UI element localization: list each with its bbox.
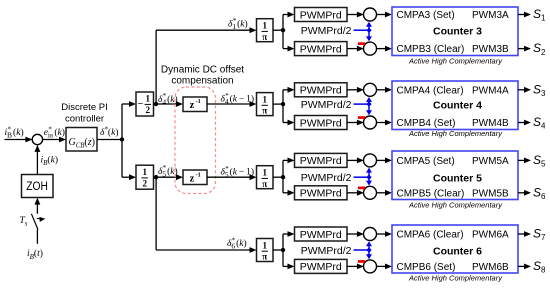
wire summer to counter box top row counter 5 xyxy=(377,159,387,161)
wire PWMPrd to summer bottom row counter 4 xyxy=(347,122,358,124)
wire summer to counter box top row counter 4 xyxy=(377,89,387,91)
block ZOH xyxy=(22,175,54,198)
sampler switch xyxy=(31,214,38,230)
node δ5*(k) xyxy=(154,176,178,178)
summer circle top row counter 3 xyxy=(364,8,377,21)
block PWMPrd top row counter 3 xyxy=(295,8,348,22)
counter box Counter 6 xyxy=(392,225,518,273)
output arrow S2 xyxy=(518,48,526,50)
svg-text:-1: -1 xyxy=(196,172,201,179)
wire branch to top PWMPrd row counter 5 xyxy=(282,160,284,192)
svg-text:−: − xyxy=(138,99,144,110)
svg-text:π: π xyxy=(262,32,267,42)
wire summer to counter box bottom row counter 3 xyxy=(377,48,387,50)
summer circle top row counter 4 xyxy=(364,83,377,96)
block PWMPrd top row counter 4 xyxy=(295,83,348,97)
svg-text:compensation: compensation xyxy=(171,76,233,87)
svg-text:iB(t): iB(t) xyxy=(27,248,43,261)
block GCB(z) PI controller xyxy=(66,128,97,152)
blue wire PWMPrd/2 row counter 4 xyxy=(354,103,370,105)
wire summer to counter box bottom row counter 5 xyxy=(377,192,387,194)
svg-text:Counter 3: Counter 3 xyxy=(433,26,482,38)
minus sign row counter 5 xyxy=(358,187,365,190)
output arrow S1 xyxy=(518,14,526,16)
blue wire PWMPrd/2 row counter 6 xyxy=(354,249,370,251)
svg-text:Discrete PI: Discrete PI xyxy=(61,102,107,113)
gain block 1/pi row counter 3 xyxy=(257,19,274,42)
summer circle bottom row counter 5 xyxy=(364,186,377,199)
wire z-1 to 1/pi row2, label δ4*(k-1) xyxy=(207,103,251,105)
wire summer to counter box bottom row counter 4 xyxy=(377,122,387,124)
wire node to -1/2 gain xyxy=(121,104,123,177)
gain block 1/2 xyxy=(136,165,154,189)
svg-text:1: 1 xyxy=(263,95,268,105)
svg-text:PWM5A: PWM5A xyxy=(472,156,509,167)
svg-text:PWMPrd/2: PWMPrd/2 xyxy=(301,245,352,257)
svg-text:δ*5(k − 1): δ*5(k − 1) xyxy=(221,165,255,179)
minus sign row counter 4 xyxy=(358,116,365,119)
output arrow S8 xyxy=(518,265,526,267)
svg-text:δ*6(k): δ*6(k) xyxy=(227,236,247,250)
node δ* junction xyxy=(120,137,124,141)
svg-text:z: z xyxy=(190,100,195,111)
wire PWMPrd to summer top row counter 3 xyxy=(347,14,358,16)
feedback wire iB(k) into summer xyxy=(36,150,38,174)
wire PWMPrd to summer bottom row counter 5 xyxy=(347,192,358,194)
wire branch to top PWMPrd row counter 4 xyxy=(282,90,284,123)
gain block 1/pi row counter 4 xyxy=(257,93,274,116)
wire z-1 to 1/pi row3, label δ5*(k-1) xyxy=(207,176,251,178)
block PWMPrd top row counter 5 xyxy=(295,153,348,167)
svg-text:PWMPrd/2: PWMPrd/2 xyxy=(301,25,352,37)
svg-text:i*B(k): i*B(k) xyxy=(5,125,24,139)
node after 1/pi row counter 4 xyxy=(273,103,283,105)
blue wire PWMPrd/2 row counter 5 xyxy=(354,176,370,178)
block PWMPrd bottom row counter 6 xyxy=(295,259,348,273)
wire sampler to ZOH xyxy=(36,203,38,214)
minus sign row counter 6 xyxy=(358,260,365,263)
gain block 1/pi row counter 5 xyxy=(257,166,274,189)
wire riser to row4 δ6*(k) xyxy=(155,177,157,250)
node after 1/pi row counter 5 xyxy=(273,176,283,178)
svg-text:PWM4B: PWM4B xyxy=(472,118,509,129)
svg-text:Counter 6: Counter 6 xyxy=(433,245,482,257)
wire branch to bottom PWMPrd row counter 5 xyxy=(283,192,289,194)
svg-text:Active High Complementary: Active High Complementary xyxy=(408,129,503,138)
svg-text:δ*(k): δ*(k) xyxy=(100,125,118,138)
summer circle bottom row counter 3 xyxy=(364,42,377,55)
summer circle top row counter 6 xyxy=(364,228,377,241)
svg-text:1: 1 xyxy=(263,168,268,178)
svg-text:1: 1 xyxy=(263,241,268,251)
svg-text:PWM4A: PWM4A xyxy=(472,85,509,96)
svg-text:PWMPrd/2: PWMPrd/2 xyxy=(301,172,352,184)
wire PWMPrd to summer top row counter 4 xyxy=(347,89,358,91)
svg-text:1: 1 xyxy=(142,167,147,177)
svg-text:PWMPrd/2: PWMPrd/2 xyxy=(301,99,352,111)
wire branch to top PWMPrd row counter 3 xyxy=(282,15,284,49)
wire summer to counter box top row counter 3 xyxy=(377,14,387,16)
gain block -1/2 xyxy=(136,92,154,116)
wire from iB(t) xyxy=(36,230,38,244)
block PWMPrd bottom row counter 5 xyxy=(295,186,348,200)
svg-text:Active High Complementary: Active High Complementary xyxy=(408,201,503,210)
svg-text:PWMPrd: PWMPrd xyxy=(300,155,342,167)
wire PWMPrd to summer bottom row counter 6 xyxy=(347,265,358,267)
minus sign row counter 3 xyxy=(358,42,365,45)
wire GCB to node xyxy=(97,139,122,141)
block PWMPrd bottom row counter 3 xyxy=(295,42,348,56)
summing junction xyxy=(32,134,42,144)
svg-text:-1: -1 xyxy=(196,98,201,105)
svg-text:PWM5B: PWM5B xyxy=(472,188,509,199)
svg-text:iB(k): iB(k) xyxy=(41,155,58,168)
svg-text:Active High Complementary: Active High Complementary xyxy=(408,274,503,283)
summer circle bottom row counter 4 xyxy=(364,116,377,129)
wire PWMPrd to summer top row counter 5 xyxy=(347,159,358,161)
counter box Counter 4 xyxy=(392,81,518,130)
svg-text:z: z xyxy=(190,174,195,185)
svg-text:2: 2 xyxy=(142,178,147,188)
svg-text:1: 1 xyxy=(146,94,151,104)
svg-text:PWMPrd: PWMPrd xyxy=(300,9,342,21)
svg-text:CMPB3 (Clear): CMPB3 (Clear) xyxy=(397,44,465,55)
svg-text:Active High Complementary: Active High Complementary xyxy=(408,56,503,65)
svg-text:CMPB6 (Set): CMPB6 (Set) xyxy=(397,262,456,273)
wire branch to bottom PWMPrd row counter 3 xyxy=(283,48,289,50)
svg-text:1: 1 xyxy=(263,21,268,31)
svg-text:Counter 4: Counter 4 xyxy=(433,99,482,111)
output arrow S4 xyxy=(518,122,526,124)
svg-text:PWMPrd: PWMPrd xyxy=(300,85,342,97)
block PWMPrd top row counter 6 xyxy=(295,227,348,241)
node after 1/pi row counter 6 xyxy=(273,249,283,251)
svg-text:π: π xyxy=(262,179,267,189)
svg-text:CMPB4 (Set): CMPB4 (Set) xyxy=(397,118,456,129)
blue wire PWMPrd/2 row counter 3 xyxy=(354,29,370,31)
svg-text:PWM3A: PWM3A xyxy=(472,10,509,21)
svg-text:PWM6A: PWM6A xyxy=(472,230,509,241)
node after 1/pi row counter 3 xyxy=(273,29,283,31)
svg-text:π: π xyxy=(262,106,267,116)
svg-text:PWM6B: PWM6B xyxy=(472,262,509,273)
wire PWMPrd to summer top row counter 6 xyxy=(347,233,358,235)
counter box Counter 3 xyxy=(392,7,518,56)
gain block 1/pi row counter 6 xyxy=(257,239,274,262)
delay block z-1 top xyxy=(183,97,207,112)
svg-text:CMPB5 (Clear): CMPB5 (Clear) xyxy=(397,188,465,199)
dashed box dynamic DC offset compensation xyxy=(175,87,216,194)
svg-text:PWMPrd: PWMPrd xyxy=(300,188,342,200)
output arrow S5 xyxy=(518,159,526,161)
wire input to summer xyxy=(5,139,27,141)
wire branch to top PWMPrd row counter 6 xyxy=(282,234,284,266)
svg-text:CMPA3 (Set): CMPA3 (Set) xyxy=(397,10,455,21)
svg-text:e*iB(k): e*iB(k) xyxy=(44,125,65,139)
svg-text:PWM3B: PWM3B xyxy=(472,44,509,55)
svg-text:CMPA5 (Set): CMPA5 (Set) xyxy=(397,156,455,167)
output arrow S3 xyxy=(518,89,526,91)
svg-text:Counter 5: Counter 5 xyxy=(433,173,482,185)
svg-text:π: π xyxy=(262,252,267,262)
svg-text:controller: controller xyxy=(65,114,104,125)
svg-text:PWMPrd: PWMPrd xyxy=(300,117,342,129)
wire branch to bottom PWMPrd row counter 6 xyxy=(283,265,289,267)
output arrow S6 xyxy=(518,192,526,194)
summer circle bottom row counter 6 xyxy=(364,260,377,273)
svg-text:ZOH: ZOH xyxy=(26,179,48,193)
block PWMPrd bottom row counter 4 xyxy=(295,116,348,130)
svg-text:PWMPrd: PWMPrd xyxy=(300,229,342,241)
svg-text:CMPA6 (Clear): CMPA6 (Clear) xyxy=(397,230,464,241)
output arrow S7 xyxy=(518,233,526,235)
svg-text:CMPA4 (Clear): CMPA4 (Clear) xyxy=(397,85,464,96)
delay block z-1 bottom xyxy=(183,170,207,185)
wire summer to counter box top row counter 6 xyxy=(377,233,387,235)
wire riser to row1 δ1*(k) xyxy=(155,30,157,104)
svg-text:δ*4(k − 1): δ*4(k − 1) xyxy=(221,92,255,106)
svg-text:Dynamic DC offset: Dynamic DC offset xyxy=(161,64,244,75)
svg-text:2: 2 xyxy=(146,105,151,115)
svg-text:PWMPrd: PWMPrd xyxy=(300,261,342,273)
wire summer to counter box bottom row counter 6 xyxy=(377,265,387,267)
summer circle top row counter 5 xyxy=(364,154,377,167)
counter box Counter 5 xyxy=(392,151,518,200)
wire node to 1/2 gain xyxy=(122,176,131,178)
wire summer to GCB xyxy=(43,139,61,141)
wire branch to bottom PWMPrd row counter 4 xyxy=(283,122,289,124)
node δ4*(k) xyxy=(154,103,178,105)
svg-text:δ*1(k): δ*1(k) xyxy=(228,17,248,31)
wire PWMPrd to summer bottom row counter 3 xyxy=(347,48,358,50)
svg-text:PWMPrd: PWMPrd xyxy=(300,43,342,55)
